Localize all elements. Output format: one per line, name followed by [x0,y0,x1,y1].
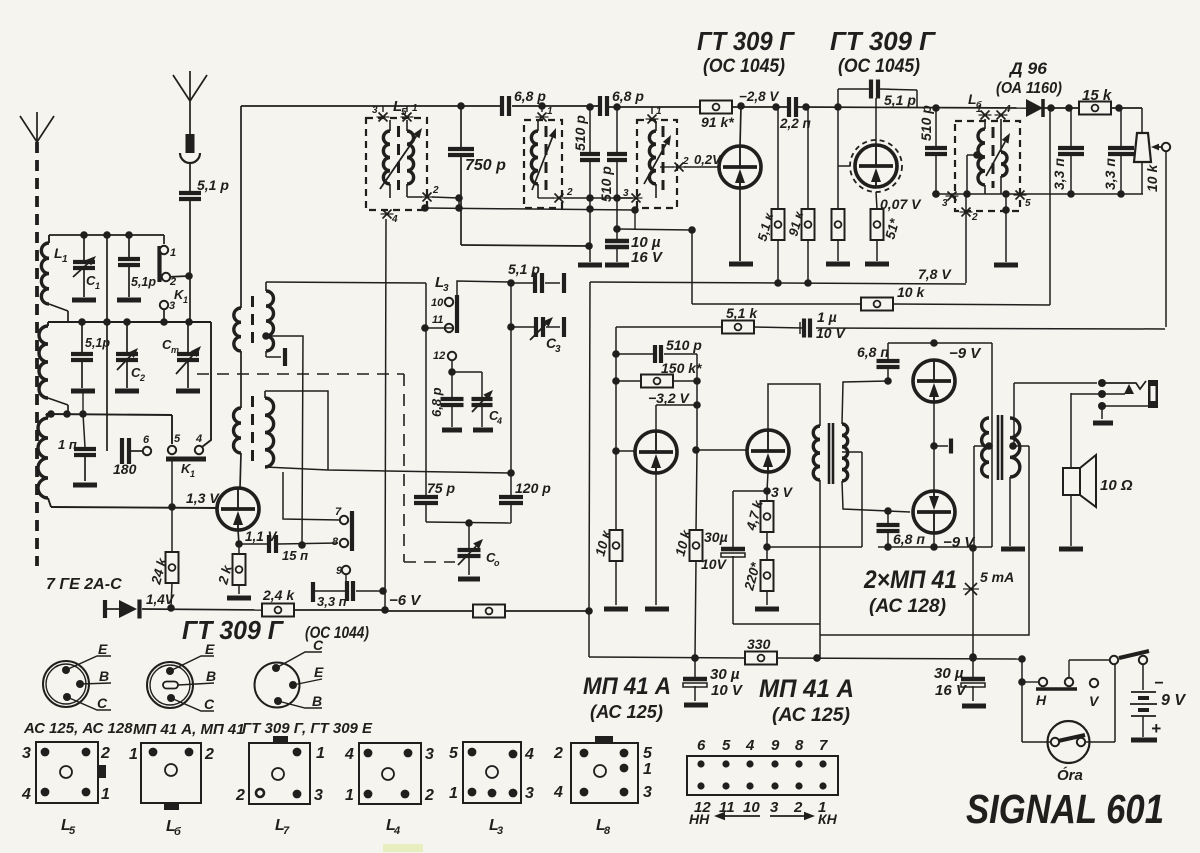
label MP41A MP41 [133,721,245,738]
coil box3 [649,121,663,198]
terminal L5-4 [381,210,399,226]
resistor 10k vert #2 [672,527,702,662]
arrow box2 [532,128,556,190]
svg-text:C: C [313,637,324,653]
coil L7 footprint [235,736,325,837]
label SIGNAL 601 [966,786,1164,832]
diode D96 [996,59,1062,117]
wire contact7 riser [283,472,340,520]
wire secondary bottom gnd [1001,477,1025,549]
svg-text:2: 2 [424,787,434,804]
terminal box3-1 [646,106,663,124]
svg-text:6,8 п: 6,8 п [857,344,889,360]
svg-text:B: B [312,693,322,709]
svg-text:1: 1 [345,787,354,804]
svg-text:B: B [206,668,216,684]
wire T4 collector [656,405,697,430]
wire y=283 rail right [590,266,966,284]
svg-text:1: 1 [129,746,138,763]
terminal box2-1 [536,106,554,122]
svg-text:3: 3 [425,746,434,763]
wire secondary tap right [820,446,1029,635]
svg-text:Óra: Óra [1057,766,1083,784]
svg-text:0,2V: 0,2V [694,152,722,167]
svg-text:2: 2 [971,212,978,223]
svg-text:2: 2 [100,745,110,762]
coil L5 left winding [383,120,390,198]
svg-text:2: 2 [432,185,439,196]
speaker [1059,393,1133,549]
svg-text:9: 9 [771,737,780,754]
svg-text:510 p: 510 p [598,166,614,202]
output transformer secondary [1009,418,1020,477]
svg-text:7 ГЕ 2А-С: 7 ГЕ 2А-С [46,576,122,593]
svg-text:16 V: 16 V [631,249,664,266]
wire top rail y=235 [49,231,164,239]
label GT309G #1 title [697,26,795,77]
resistor 5,1k AGC [722,305,758,334]
svg-text:5: 5 [174,433,181,445]
label 510p vert 2 [598,166,614,202]
svg-text:3,3 п: 3,3 п [317,594,347,609]
interstage transformer secondary [842,424,848,481]
capacitor 6,8n upper [857,343,900,381]
capacitor 750p [448,106,506,245]
svg-text:(ОА 1160): (ОА 1160) [996,80,1062,97]
svg-text:1: 1 [183,295,188,305]
svg-text:(АС 125): (АС 125) [590,702,663,722]
capacitor 510p T2 [918,105,947,198]
terminal L6-4 [995,104,1012,120]
wire L1 mid to rail [48,398,68,414]
svg-text:4: 4 [21,786,31,803]
svg-text:10V: 10V [701,556,728,572]
arrow box3 [644,135,671,184]
label MP41A left [583,673,671,722]
svg-text:5,1 p: 5,1 p [197,177,229,193]
svg-text:6: 6 [697,737,706,754]
svg-text:12: 12 [433,350,445,362]
capacitor 1n [58,414,97,485]
svg-text:2: 2 [682,156,689,167]
svg-text:5: 5 [69,825,76,837]
label 510p vert 1 [572,115,588,151]
wire T6 emitter chain [930,402,951,490]
svg-text:3: 3 [443,283,449,294]
svg-text:16 V: 16 V [935,682,968,699]
label 1,1V [245,529,278,544]
label MP41A right [759,675,854,726]
svg-text:2: 2 [566,187,573,198]
svg-text:(ОС 1045): (ОС 1045) [838,56,920,77]
switch Ora [1022,664,1115,784]
svg-text:3: 3 [770,799,779,816]
transistor T1 GT309G #1 [719,146,761,188]
svg-text:7: 7 [819,737,828,754]
svg-text:11: 11 [432,314,443,326]
svg-text:4: 4 [745,737,755,754]
resistor 10k vert #1 [592,528,628,609]
capacitor 6,8p #1 [502,88,546,116]
wire feedback to transformer [767,546,862,548]
svg-text:2: 2 [235,787,245,804]
wire t2 secondary bottom [265,467,511,473]
IF transformer 2 primary [234,408,241,453]
label -9V lower [943,534,976,551]
resistor 5,1k vert [754,107,784,287]
svg-text:330: 330 [747,636,771,652]
wire rail y=414 [46,410,172,444]
svg-text:1: 1 [62,254,68,265]
capacitor 3,3n #2 [1102,108,1134,194]
svg-text:8: 8 [604,825,611,837]
svg-text:ГТ 309 Г: ГТ 309 Г [830,26,936,56]
wire x=590 lower [585,282,593,657]
label -2,8V [739,89,779,104]
wire L6 bottom rail [932,190,1143,198]
label L3 [435,274,449,294]
wire rail y=547 [878,546,992,548]
svg-text:7,8 V: 7,8 V [918,266,952,282]
label AC125 AC128 [23,720,133,737]
capacitor 5,1p feedback [838,80,917,146]
connector 12pin [687,737,838,827]
wire L5 pin4 down [385,219,386,610]
svg-text:5 mA: 5 mA [980,569,1014,585]
resistor 330 [745,636,777,665]
wire T4 emitter [645,473,669,609]
svg-text:2: 2 [793,799,803,816]
wire x=820 down [813,480,821,662]
jack plug symbol [1102,380,1158,408]
coil L1 [38,235,68,498]
terminal L5-1 [401,103,419,122]
svg-text:5: 5 [449,745,459,762]
tuned circuit box 2 [524,120,562,208]
svg-text:C: C [204,696,215,712]
trimmer C4 [452,372,502,430]
terminal box3-2 [660,156,719,172]
resistor 10k (AGC) [692,284,1050,311]
resistor 4,7k [743,491,773,551]
svg-text:2: 2 [553,745,563,762]
transistor T7 MP41 lower [913,491,955,533]
wire T4 base [616,450,634,452]
trimmer C3 [507,283,564,355]
svg-text:3,3 п: 3,3 п [1051,158,1067,190]
label 1,3V [186,490,220,506]
switch K1 contacts 4-5-6 [166,433,206,479]
svg-text:510 р: 510 р [918,105,934,141]
svg-text:30 µ: 30 µ [710,666,740,683]
svg-text:Д 96: Д 96 [1008,59,1048,78]
svg-text:1,3 V: 1,3 V [186,490,220,506]
svg-text:1: 1 [412,103,418,114]
coil L5 footprint [21,742,110,837]
pinout MP41 circle [147,641,216,712]
capacitor 6,8n lower [877,511,926,551]
wire T5 collector loop [768,384,820,430]
svg-text:6,8 p: 6,8 p [612,88,644,104]
capacitor 6,8p #2 [600,88,644,116]
svg-text:4: 4 [195,433,202,445]
svg-text:510 p: 510 p [572,115,588,151]
wire T2 base [838,107,850,166]
coil L6 left [973,119,985,194]
terminal 12 [433,350,456,376]
svg-text:7: 7 [283,825,290,837]
label 0,07V [880,196,922,212]
label 0,2V [694,152,722,167]
wire top main y=106 [241,102,1142,112]
svg-text:m: m [171,345,179,355]
trimmer C2 [115,322,145,391]
svg-text:4: 4 [391,214,398,225]
label L6 [968,91,982,110]
coil L4 footprint [344,743,434,837]
svg-text:1 µ: 1 µ [817,309,837,325]
trimmer Cm [162,322,201,391]
interstage transformer core [829,423,833,484]
wire T3 emitter [235,530,243,548]
wire bottom rail y=658 [589,654,1026,663]
svg-text:150 k*: 150 k* [661,360,702,376]
coil L6 right [1001,119,1007,194]
svg-text:E: E [98,641,108,657]
capacitor 120p [499,473,551,523]
wire y=283 rail left [266,282,426,283]
svg-text:МП 41 А, МП 41: МП 41 А, МП 41 [133,721,245,738]
resistor 220* [741,547,779,609]
capacitor 510p b [607,107,627,233]
wire x=616 down [612,327,620,530]
svg-text:6,8 p: 6,8 p [514,88,546,104]
antenna W2 (car antenna) [173,71,207,193]
svg-text:15 k: 15 k [1082,87,1112,104]
svg-text:−: − [1154,675,1163,692]
svg-text:7: 7 [335,506,342,518]
resistor 51* vert [865,192,902,264]
trimmer Co [458,523,501,579]
svg-text:+: + [1151,719,1161,738]
wire -9V top [888,339,992,362]
svg-text:3: 3 [942,198,948,209]
wire y=208 [421,194,639,230]
svg-text:ГТ 309 Г: ГТ 309 Г [182,615,284,645]
terminal L6-1 [976,104,992,120]
svg-text:3: 3 [22,745,31,762]
wire T5 base [696,449,746,451]
svg-text:1: 1 [190,469,195,479]
svg-text:3: 3 [314,787,323,804]
capacitor 15p [239,535,338,563]
svg-text:1: 1 [101,786,110,803]
resistor 91k vert [785,107,814,287]
wire L6 tap to left [963,155,977,198]
svg-text:9 V: 9 V [1161,692,1186,709]
svg-text:6,8 р: 6,8 р [429,387,444,417]
svg-text:−2,8 V: −2,8 V [739,89,779,104]
IF transformer 2 secondary [265,391,274,467]
core L6 dashed [992,127,995,188]
svg-text:10 k: 10 k [897,284,925,300]
label -3,2V [648,390,691,406]
wire L1 tap to rail [49,304,68,322]
arrow L6 [986,133,1010,176]
capacitor 6,8p L3 [429,372,464,430]
wire T5 emitter [763,472,793,500]
svg-text:10 Ω: 10 Ω [1100,477,1133,494]
wire pot wiper down [1165,151,1167,327]
svg-text:5: 5 [1025,198,1031,209]
wire x=426 down [421,283,429,497]
svg-text:−6 V: −6 V [389,592,422,609]
resistor 15k [1079,87,1112,115]
svg-text:ГТ 309 Г: ГТ 309 Г [697,26,795,56]
svg-text:4: 4 [344,746,354,763]
pinout GT309 circle [255,637,325,709]
svg-text:б: б [174,826,182,838]
svg-text:2,2 п: 2,2 п [779,116,812,131]
transistor T3 GT309G osc [217,488,259,530]
svg-text:10 k: 10 k [1144,164,1160,192]
svg-text:НН: НН [689,811,710,827]
wire L6-2 down [965,194,967,283]
transistor T5 MP41A #2 [747,430,789,472]
svg-text:C: C [97,695,108,711]
svg-text:1,1 V: 1,1 V [245,529,278,544]
label -6V [389,592,422,609]
svg-text:30 µ: 30 µ [934,665,964,682]
ground stub near L6 [994,190,1018,265]
svg-text:3: 3 [643,784,652,801]
wire battery feed x=973 [963,544,1014,661]
svg-text:4: 4 [524,746,534,763]
terminal V [1089,679,1100,709]
capacitor 3,3n #1 [1051,108,1084,194]
node antenna-K1 junction [166,272,193,280]
core L5 dashed [397,126,400,190]
svg-text:(ОС 1045): (ОС 1045) [703,56,785,77]
capacitor 5,1p (2nd row) [71,322,110,391]
svg-text:ГТ 309 Г, ГТ 309 Е: ГТ 309 Г, ГТ 309 Е [242,720,373,737]
svg-text:10 V: 10 V [816,325,846,341]
wire interstage sec tap [842,452,862,547]
battery 9V [1130,675,1186,740]
capacitor 1u 10V [800,309,846,341]
cap 10u16V [605,229,664,266]
svg-text:4: 4 [393,825,400,837]
svg-text:3: 3 [525,785,534,802]
svg-text:15 п: 15 п [282,548,308,563]
wire T7 to rail [930,533,938,551]
svg-text:5,1 p: 5,1 p [884,92,916,108]
svg-text:1,4V: 1,4V [146,592,175,607]
terminal L6-3 [942,192,959,210]
svg-text:3: 3 [555,344,561,355]
svg-text:−3,2 V: −3,2 V [648,390,691,406]
interstage transformer primary [813,426,820,480]
svg-text:2: 2 [139,373,145,383]
wire x=590 upper [578,198,602,265]
svg-text:1: 1 [170,247,176,259]
wire rail y=322 [48,318,211,447]
svg-text:5: 5 [722,737,731,754]
svg-text:КН: КН [818,811,838,827]
capacitor 5,1p antenna [179,177,229,322]
svg-text:МП 41 А: МП 41 А [759,675,854,703]
resistor 150k* [616,360,702,388]
label GT309G GT309E [242,720,373,737]
wire t2 secondary top [265,391,328,470]
svg-text:1: 1 [656,106,662,117]
svg-text:4: 4 [1004,104,1011,115]
svg-text:750 p: 750 p [465,157,506,174]
wire primary tap down [974,446,989,548]
svg-text:2,4 k: 2,4 k [262,587,295,603]
switch contacts 7-8 [332,506,352,551]
wire C-bottom stubs [82,393,84,414]
coil L8 footprint [553,736,653,837]
terminal box2-2 [538,187,633,203]
IF transformer 2 core [251,396,254,463]
capacitor 510p fb [616,337,702,363]
coil box2 [531,121,546,198]
tuned circuit box 3 [637,120,677,208]
svg-text:3 V: 3 V [771,484,794,500]
transistor T4 MP41A #1 [635,431,677,473]
svg-text:5,1 k: 5,1 k [726,305,758,321]
svg-text:8: 8 [332,536,339,548]
IF transformer 1 secondary [262,282,273,351]
capacitor 30u 10V [701,491,820,624]
label 2xMP41 [863,566,957,617]
wire interstage sec top [842,377,892,424]
resistor base T2 vert [826,166,850,264]
svg-text:2: 2 [204,746,214,763]
svg-text:8: 8 [795,737,804,754]
IF transformer 1 primary [234,308,241,351]
wire x=241 to T3 collector [240,453,241,488]
wire K1-5 to base [171,459,173,507]
capacitor 2,2n [779,97,812,131]
svg-text:о: о [494,558,500,568]
output transformer core [998,415,1002,480]
svg-text:2×МП 41: 2×МП 41 [863,566,957,594]
coil L5 right winding [407,120,414,197]
svg-text:H: H [1036,692,1047,708]
wire T1 collector up [740,106,741,146]
svg-text:1: 1 [547,106,553,117]
terminal L6-5 [1014,191,1032,210]
svg-text:АС 125, АС 128: АС 125, АС 128 [23,720,133,737]
terminal L5-2 [407,185,459,202]
svg-text:1: 1 [976,104,982,115]
wire x=241 between transformers [240,351,242,408]
wire secondary top to jack [1014,383,1097,446]
resistor 24k [148,507,178,612]
svg-text:10 V: 10 V [711,682,744,699]
antenna W1 (telescopic, dashed) [20,112,54,566]
svg-text:180: 180 [113,461,137,477]
transistor T6 MP41 upper [913,360,955,402]
svg-text:E: E [205,641,215,657]
tuned circuit L5 box [366,118,427,210]
svg-text:4: 4 [553,784,563,801]
resistor 91k* horizontal [700,101,734,131]
wire 10u rail y=230 [617,226,696,234]
IF t1 secondary bottom stub [266,348,285,366]
